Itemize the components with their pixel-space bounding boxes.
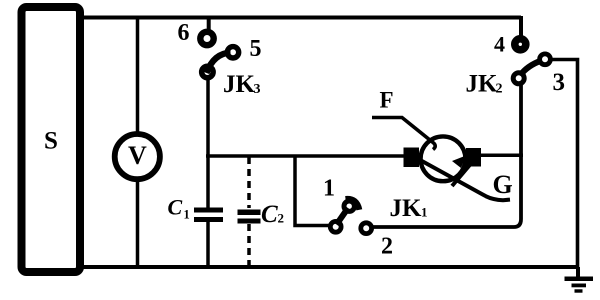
wire dashed C2 bottom <box>247 224 251 266</box>
svg-text:JK: JK <box>390 195 423 222</box>
wire JK2 stub <box>519 16 523 37</box>
svg-text:V: V <box>128 141 147 170</box>
battery S <box>22 7 81 272</box>
svg-text:G: G <box>493 170 513 199</box>
motor M circle <box>421 136 466 181</box>
svg-text:1: 1 <box>421 205 428 220</box>
wire voltmeter bottom <box>136 180 140 267</box>
switch JK1 lever <box>337 208 349 225</box>
wire dashed C2 top <box>247 157 251 208</box>
motor right brush <box>466 148 481 167</box>
svg-text:C: C <box>261 201 278 228</box>
wire mid bus <box>206 154 405 158</box>
switch JK2 pivot <box>513 73 524 84</box>
svg-text:1: 1 <box>184 208 190 222</box>
svg-text:2: 2 <box>496 82 503 97</box>
terminal 6 of JK3 <box>200 32 213 45</box>
wire bottom bus <box>80 265 579 269</box>
switch JK3 lever <box>207 53 231 74</box>
switch JK1 lever tip ring <box>344 201 354 211</box>
label JK1 <box>390 195 428 222</box>
motor commutator bar <box>452 160 474 186</box>
wire JK3 to C1 <box>206 78 210 208</box>
wire motor right <box>480 154 523 158</box>
svg-text:JK: JK <box>223 71 256 98</box>
label JK2 <box>466 71 503 98</box>
svg-text:2: 2 <box>381 234 393 260</box>
capacitor C2 <box>238 201 285 228</box>
wire voltmeter top <box>136 17 140 134</box>
svg-text:S: S <box>44 128 58 155</box>
pointer line F <box>372 118 435 150</box>
wire JK1 to JK2 riser <box>372 84 521 227</box>
wire JK3 stub <box>207 16 211 32</box>
svg-text:4: 4 <box>494 32 505 57</box>
wire JK1 branch <box>295 156 331 226</box>
svg-text:5: 5 <box>250 36 262 62</box>
terminal 3 of JK2 <box>540 54 551 65</box>
motor brush arrow wedge <box>452 156 466 169</box>
switch JK3 pivot <box>202 66 214 78</box>
svg-text:6: 6 <box>178 20 190 46</box>
svg-text:3: 3 <box>553 69 566 96</box>
capacitor C1 <box>168 195 224 222</box>
switch JK2 lever <box>520 61 542 76</box>
svg-text:3: 3 <box>254 82 261 97</box>
pointer line G <box>411 155 510 200</box>
svg-text:C: C <box>168 195 183 220</box>
motor left brush <box>404 148 420 168</box>
svg-text:F: F <box>380 88 394 113</box>
ground <box>565 267 594 293</box>
wire top bus <box>80 16 521 20</box>
svg-text:JK: JK <box>466 71 499 98</box>
terminal 5 of JK3 <box>227 47 238 58</box>
svg-text:2: 2 <box>278 211 285 226</box>
wire C1 to bottom <box>206 222 210 268</box>
label JK3 <box>223 71 261 98</box>
voltmeter V <box>115 134 160 179</box>
wire JK2 terminal3 to right riser <box>550 60 578 268</box>
terminal 4 of JK2 <box>515 39 526 50</box>
switch JK1 pivot terminal <box>330 221 341 232</box>
terminal 2 of JK1 <box>361 223 372 234</box>
svg-text:1: 1 <box>323 176 335 202</box>
